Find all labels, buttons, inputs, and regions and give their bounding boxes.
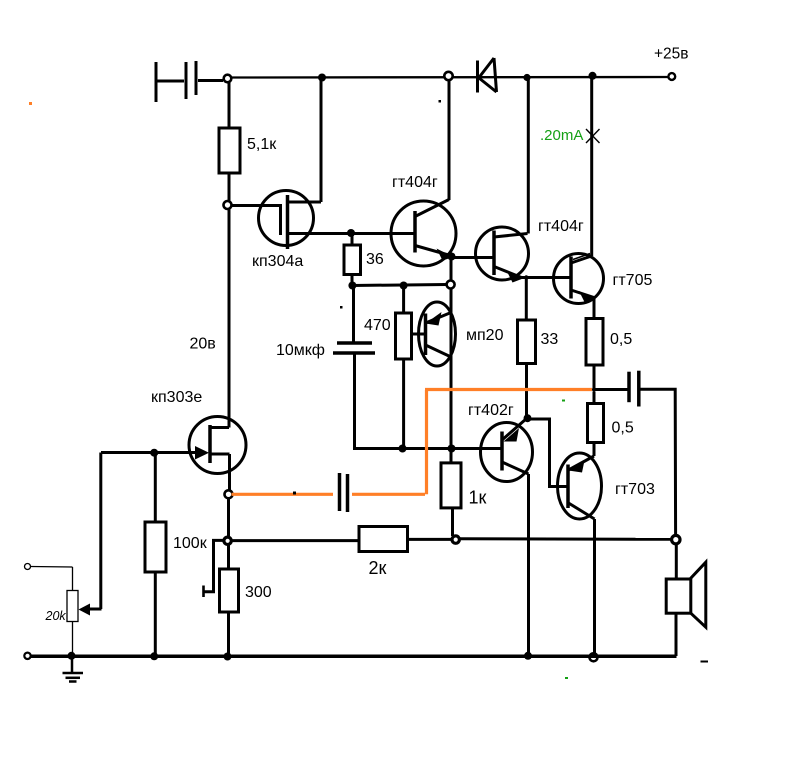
svg-text:5,1к: 5,1к <box>247 136 277 153</box>
wire emitter node down to open circle <box>450 258 453 281</box>
bottom rail <box>31 654 677 658</box>
wire base line to гт404г no.1 <box>352 232 415 235</box>
node source кп303е (open circle) <box>225 490 233 498</box>
wire input lead <box>156 80 184 83</box>
wire 33 bottom lead <box>525 364 528 418</box>
svg-text:33: 33 <box>541 331 559 348</box>
svg-text:гт404г: гт404г <box>392 174 438 191</box>
node collector гт703 rail (open circle) <box>590 653 598 661</box>
svg-text:100к: 100к <box>173 535 208 552</box>
wire 1k ring to output circle <box>460 537 672 541</box>
node collector гт402г rail (dot) <box>524 652 532 660</box>
node speaker (open circle) <box>672 535 680 543</box>
resistor 2к <box>359 527 408 552</box>
wire resistor to node <box>228 173 231 201</box>
wire out-cap right lead <box>641 389 676 536</box>
node 2k-left (ring) <box>224 537 231 544</box>
wire to 36 <box>351 233 354 245</box>
wire wiper vertical <box>99 453 102 610</box>
capacitor input C-in plate 2 <box>195 61 198 95</box>
wire 33 top lead <box>525 278 528 321</box>
transistor гт404г no.2 <box>476 227 529 283</box>
svg-text:10мкф: 10мкф <box>276 342 325 359</box>
capacitor 10мкф plate 1 <box>337 341 372 345</box>
wire base мп20 <box>412 333 426 336</box>
wire emitter гт402г to гт703 base <box>529 419 568 487</box>
wire 0,5 to junction <box>593 364 596 391</box>
svg-text:300: 300 <box>245 584 272 601</box>
node source/36 (junction dot) <box>347 229 355 237</box>
wire emitter node to гт404г no.2 base <box>452 256 495 259</box>
wire 10uf top lead <box>352 286 355 343</box>
orange wire segments <box>232 390 593 495</box>
speck near cap top lead <box>340 306 343 309</box>
wire node to resistor 5,1k <box>228 83 231 129</box>
wire collector гт703 to rail <box>593 519 596 653</box>
node base гт402г / 1k (junction dot) <box>448 445 456 453</box>
wire top rail <box>232 76 672 79</box>
wire drain кп304а to rail <box>320 79 323 202</box>
small dash near rail end <box>701 661 709 663</box>
wire collector гт402г to rail <box>527 474 530 655</box>
green speck near bottom rail <box>565 677 568 679</box>
wire junction to out-cap <box>594 388 628 391</box>
wire 20v long vertical <box>228 209 231 428</box>
resistor 100к <box>145 522 166 572</box>
node rail end +25v (open circle) <box>668 73 675 80</box>
svg-text:470: 470 <box>364 317 391 334</box>
svg-text:1к: 1к <box>469 488 487 508</box>
wire collector гт404г no.2 to rail <box>527 80 530 234</box>
node output junction (dot) <box>592 388 596 392</box>
wire 2k to 1k ring <box>408 538 452 541</box>
wire 470 top <box>402 286 405 314</box>
wire 10uf bottom lead <box>355 353 502 449</box>
transistor мп20 <box>419 302 456 366</box>
node 300 rail (dot) <box>224 653 232 661</box>
wire open circle down through мп20 <box>450 288 453 449</box>
capacitor feedback plate 2 <box>346 474 350 512</box>
svg-text:кп304а: кп304а <box>252 253 303 270</box>
measurement X mark <box>586 129 600 143</box>
svg-text:2к: 2к <box>369 558 387 578</box>
wire feedback 2k line <box>230 539 359 542</box>
input terminal bar <box>155 62 158 102</box>
svg-text:гт402г: гт402г <box>468 402 514 419</box>
wire 300 bottom <box>227 612 230 656</box>
node pot rail (dot) <box>68 652 76 660</box>
node 470-top (junction dot) <box>400 282 408 290</box>
transistor гт703 <box>558 453 602 519</box>
wire collector гт705 to rail <box>590 77 593 256</box>
green speck near orange wire <box>562 400 565 402</box>
wire 0,5 bottom to гт703 emitter <box>593 443 596 457</box>
resistor 470 <box>396 313 412 359</box>
transistor гт402г <box>481 419 533 482</box>
tick on orange wire <box>293 492 296 495</box>
node rail-x527 (junction dot) <box>523 74 530 81</box>
resistor 5,1к <box>219 128 240 173</box>
node input (open circle) <box>224 75 232 83</box>
resistor 300 <box>220 569 239 612</box>
svg-text:гт705: гт705 <box>613 272 653 289</box>
node rail-x448 (open circle) <box>444 72 452 80</box>
wire gate кп303е <box>101 451 204 454</box>
wire emitter гт705 to 0,5 <box>593 298 596 319</box>
transistor гт404г no.1 <box>391 200 456 267</box>
wire 36 to node <box>351 275 354 286</box>
potentiometer 20k (thin) <box>25 564 79 656</box>
resistor 1к <box>441 463 461 508</box>
svg-text:.20mA: .20mA <box>540 127 583 144</box>
svg-text:0,5: 0,5 <box>610 331 632 348</box>
wiper tap end bar <box>202 586 205 598</box>
node 100k rail (dot) <box>150 652 158 660</box>
speaker <box>666 562 706 627</box>
wiper arrow line <box>86 608 102 611</box>
wire node to open circle x450 <box>352 285 447 286</box>
svg-text:мп20: мп20 <box>466 327 504 344</box>
node 1k-2k (open circle) <box>452 536 459 543</box>
wire to speaker <box>675 544 678 580</box>
wire junction to 0,5 bottom <box>593 392 596 404</box>
node emitter гт402г (junction dot) <box>524 414 532 422</box>
capacitor input C-in plate 1 <box>185 62 188 99</box>
node 36-bottom (junction dot) <box>348 282 356 290</box>
node x450 (open circle) <box>447 281 455 289</box>
wire 1k bottom <box>451 508 454 536</box>
capacitor output plate 1 <box>627 372 631 403</box>
resistor 0,5 top <box>586 319 603 366</box>
transistor кп304а <box>259 191 353 250</box>
wire 100k top <box>154 453 157 522</box>
node rail-x322 (junction dot) <box>318 74 326 82</box>
svg-text:гт404г: гт404г <box>538 218 584 235</box>
wire 470 bottom <box>402 359 405 449</box>
wire collector гт404г no.1 to rail <box>448 81 451 201</box>
resistor 36 <box>344 245 361 275</box>
node emitter гт404г no.1 (junction dot) <box>448 253 456 261</box>
svg-text:0,5: 0,5 <box>612 420 634 437</box>
wire source circle down <box>227 498 230 569</box>
capacitor output plate 2 <box>637 371 641 407</box>
wire 1k top <box>450 449 453 463</box>
wire speaker to rail <box>675 613 678 656</box>
wire 100k bottom <box>154 572 157 656</box>
wire gate кп304а <box>232 204 281 207</box>
svg-text:+25в: +25в <box>654 46 689 63</box>
wire cap to node <box>198 79 223 82</box>
svg-text:20k: 20k <box>45 609 67 623</box>
diode D1 triangle <box>479 58 497 92</box>
wiper arrowhead <box>79 604 91 616</box>
node rail left end (open circle) <box>24 653 30 659</box>
svg-text:36: 36 <box>366 251 384 268</box>
svg-text:гт703: гт703 <box>615 481 655 498</box>
resistor 0,5 bottom <box>588 404 604 443</box>
svg-text:20в: 20в <box>190 336 216 353</box>
wire 300 wiper tap <box>205 540 225 591</box>
resistor 33 <box>518 320 536 364</box>
node gate кп304а (open circle) <box>224 201 232 209</box>
node 33-top (junction dot) <box>524 275 528 279</box>
transistor кп303е <box>189 417 246 474</box>
node rail-x592 (junction dot) <box>589 72 597 80</box>
orange speck top-left <box>29 102 32 105</box>
transistor гт705 <box>554 254 604 304</box>
node gate/100k (junction dot) <box>150 449 158 457</box>
diode D1 cathode bar <box>476 61 479 93</box>
capacitor feedback plate 1 <box>338 473 342 511</box>
wire source кп303е down <box>228 454 231 490</box>
speck near T1 collector wire <box>439 100 442 103</box>
node 470-bottom (junction dot) <box>399 445 407 453</box>
capacitor 10мкф plate 2 <box>333 351 375 355</box>
svg-text:кп303е: кп303е <box>151 389 202 406</box>
ground symbol <box>63 658 84 682</box>
wire emitter гт404г no.2 to гт705 base <box>522 276 572 279</box>
